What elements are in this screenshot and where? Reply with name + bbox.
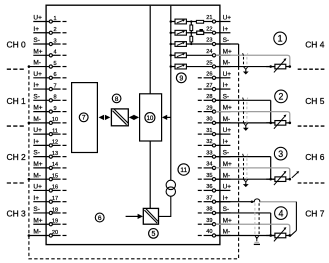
terminal circle 18 bbox=[49, 211, 52, 214]
internal bus wire lower bbox=[159, 196, 171, 216]
terminal circle 20 bbox=[49, 234, 52, 237]
svg-text:M+: M+ bbox=[223, 105, 232, 112]
svg-text:U+: U+ bbox=[223, 71, 232, 78]
terminal circle 25 bbox=[212, 65, 215, 68]
svg-text:CH 3: CH 3 bbox=[7, 209, 27, 219]
arrow bus to U10 bbox=[166, 116, 171, 118]
CH4 S- to M- link bbox=[216, 43, 239, 45]
svg-text:10: 10 bbox=[146, 115, 153, 122]
bidirectional arrow 8-10 bbox=[129, 115, 134, 120]
terminal circle 1 bbox=[49, 20, 52, 23]
CH4 M- wire bbox=[216, 66, 275, 68]
channel separator dashed right bbox=[298, 68, 325, 70]
wire U10 to U5 bbox=[149, 141, 151, 208]
wire top edge to U10 bbox=[149, 6, 151, 94]
svg-text:7: 7 bbox=[53, 83, 56, 89]
label circle 6 bbox=[95, 213, 104, 222]
svg-text:M+: M+ bbox=[33, 217, 42, 224]
input resistor row 24 bbox=[171, 54, 175, 56]
svg-text:S-: S- bbox=[223, 150, 230, 157]
terminal circle 2 bbox=[49, 31, 52, 34]
terminal circle 16 bbox=[49, 189, 52, 192]
CH5 M- wire bbox=[216, 122, 275, 124]
CH7 M- wire bbox=[216, 234, 275, 236]
multiplexer block U7 bbox=[72, 83, 98, 153]
input resistor row 22 bbox=[171, 32, 175, 34]
internal bus wire upper bbox=[170, 6, 172, 181]
legend circle 1 bbox=[274, 32, 287, 45]
svg-text:M-: M- bbox=[223, 116, 231, 123]
svg-text:I+: I+ bbox=[223, 138, 229, 145]
svg-text:CH 0: CH 0 bbox=[7, 40, 27, 50]
CH7 M+ wire gray bbox=[216, 224, 290, 235]
svg-text:4: 4 bbox=[278, 208, 283, 218]
row 21 series element bbox=[186, 21, 196, 23]
svg-text:36: 36 bbox=[206, 184, 212, 190]
row 23 wire bbox=[186, 43, 212, 45]
svg-text:33: 33 bbox=[206, 150, 212, 156]
svg-text:M+: M+ bbox=[33, 48, 42, 55]
svg-text:31: 31 bbox=[206, 128, 212, 134]
CH5 S- wire bbox=[216, 99, 271, 101]
svg-text:S-: S- bbox=[33, 37, 40, 44]
terminal circle 30 bbox=[212, 121, 215, 124]
svg-text:21: 21 bbox=[206, 15, 212, 21]
CH6 M- wire bbox=[216, 178, 275, 180]
label circle 5 bbox=[149, 229, 159, 239]
row 24 wire bbox=[186, 54, 212, 56]
CH6 sensor tap arrow bbox=[292, 172, 299, 178]
svg-text:28: 28 bbox=[206, 94, 212, 100]
svg-text:11: 11 bbox=[52, 128, 58, 134]
svg-text:U+: U+ bbox=[33, 127, 42, 134]
svg-text:S-: S- bbox=[33, 93, 40, 100]
CH7 I+ gray extension bbox=[260, 201, 296, 203]
svg-text:U+: U+ bbox=[33, 15, 42, 22]
svg-text:M+: M+ bbox=[223, 161, 232, 168]
svg-text:23: 23 bbox=[206, 38, 212, 44]
MANA analog-ground dashed loop bbox=[29, 67, 239, 259]
channel separator dashed left bbox=[7, 182, 24, 184]
svg-text:30: 30 bbox=[206, 117, 212, 123]
svg-text:M-: M- bbox=[223, 60, 231, 67]
svg-text:CH 1: CH 1 bbox=[7, 96, 27, 106]
bidirectional arrow 7-8 bbox=[99, 115, 104, 120]
svg-text:3: 3 bbox=[53, 38, 56, 44]
CH4 shield ground arrow bbox=[243, 67, 245, 70]
CH4 cable shield dashed bbox=[243, 57, 245, 67]
terminal circle 40 bbox=[212, 234, 215, 237]
isolation block U8 bbox=[111, 109, 128, 126]
CH5 sensor variable resistor bbox=[269, 122, 272, 125]
svg-text:I+: I+ bbox=[223, 195, 229, 202]
svg-text:M-: M- bbox=[33, 172, 41, 179]
svg-text:I+: I+ bbox=[223, 26, 229, 33]
junction dot MANA left row bbox=[28, 178, 31, 181]
label circle 9 bbox=[176, 73, 186, 83]
CH7 shield earth symbol bbox=[255, 235, 257, 238]
svg-text:37: 37 bbox=[206, 195, 212, 201]
terminal circle 39 bbox=[212, 223, 215, 226]
terminal circle 28 bbox=[212, 99, 215, 102]
arrow backplane to U5 bbox=[126, 215, 138, 217]
svg-text:8: 8 bbox=[115, 96, 119, 103]
CH6 sensor variable resistor bbox=[269, 178, 272, 181]
svg-text:1: 1 bbox=[53, 16, 56, 22]
terminal circle 14 bbox=[49, 166, 52, 169]
svg-text:4: 4 bbox=[53, 50, 56, 56]
terminal circle 36 bbox=[212, 189, 215, 192]
terminal circle 26 bbox=[212, 76, 215, 79]
legend circle 2 bbox=[275, 90, 288, 103]
terminal circle 5 bbox=[49, 65, 52, 68]
svg-text:I+: I+ bbox=[223, 82, 229, 89]
terminal circle 34 bbox=[212, 166, 215, 169]
CH7 S- wire bbox=[216, 212, 271, 214]
svg-text:U+: U+ bbox=[223, 184, 232, 191]
label circle 7 bbox=[79, 113, 88, 122]
svg-text:I+: I+ bbox=[33, 195, 39, 202]
svg-text:40: 40 bbox=[206, 229, 212, 235]
svg-text:I+: I+ bbox=[33, 138, 39, 145]
terminal circle 10 bbox=[49, 121, 52, 124]
CH5 shield ground arrow bbox=[243, 123, 245, 126]
svg-text:M-: M- bbox=[223, 172, 231, 179]
svg-text:2: 2 bbox=[53, 27, 56, 33]
svg-text:5: 5 bbox=[53, 61, 56, 67]
svg-text:27: 27 bbox=[206, 83, 212, 89]
terminal circle 31 bbox=[212, 133, 215, 136]
row 25 wire bbox=[186, 66, 212, 68]
label circle 11 bbox=[178, 164, 189, 175]
label circle 8 bbox=[112, 94, 121, 103]
svg-text:9: 9 bbox=[53, 106, 56, 112]
ADC block U10 bbox=[140, 94, 162, 141]
svg-text:U+: U+ bbox=[33, 71, 42, 78]
svg-text:22: 22 bbox=[206, 26, 212, 32]
channel separator dashed right bbox=[298, 182, 325, 184]
junction dot MANA left row bbox=[28, 65, 31, 68]
svg-text:M+: M+ bbox=[33, 161, 42, 168]
svg-text:M-: M- bbox=[33, 60, 41, 67]
terminal circle 33 bbox=[212, 155, 215, 158]
svg-text:CH 5: CH 5 bbox=[305, 96, 325, 106]
channel separator dashed left bbox=[7, 125, 24, 127]
terminal circle 7 bbox=[49, 87, 52, 90]
terminal circle 19 bbox=[49, 223, 52, 226]
module SM331 outline bbox=[46, 5, 220, 244]
input resistor row 23 bbox=[171, 43, 175, 45]
CH7 cable shield dashed bbox=[258, 203, 260, 235]
terminal circle 3 bbox=[49, 42, 52, 45]
junction dot MANA left row bbox=[28, 122, 31, 125]
svg-text:U+: U+ bbox=[223, 127, 232, 134]
svg-text:U+: U+ bbox=[223, 15, 232, 22]
svg-text:5: 5 bbox=[151, 231, 155, 238]
CH5 cable shield dashed bbox=[243, 102, 245, 123]
terminal circle 8 bbox=[49, 99, 52, 102]
svg-text:29: 29 bbox=[206, 105, 212, 111]
svg-text:S-: S- bbox=[33, 206, 40, 213]
legend circle 3 bbox=[274, 147, 287, 160]
svg-text:U+: U+ bbox=[33, 184, 42, 191]
divider resistor rows22-23 bbox=[190, 33, 192, 44]
terminal circle 15 bbox=[49, 178, 52, 181]
CH7 I+ wire with crossover hump bbox=[216, 201, 252, 203]
svg-text:S-: S- bbox=[223, 37, 230, 44]
CH6 M+ wire gray bbox=[216, 168, 290, 179]
terminal circle 24 bbox=[212, 54, 215, 57]
terminal circle 13 bbox=[49, 155, 52, 158]
terminal circle 4 bbox=[49, 54, 52, 57]
input resistor row 21 bbox=[171, 21, 175, 23]
CH7 sensor variable resistor bbox=[269, 234, 272, 237]
svg-text:M-: M- bbox=[223, 229, 231, 236]
svg-text:2: 2 bbox=[279, 92, 284, 102]
label circle 10 bbox=[145, 113, 155, 123]
terminal circle 29 bbox=[212, 110, 215, 113]
svg-text:M-: M- bbox=[33, 116, 41, 123]
svg-text:M+: M+ bbox=[223, 48, 232, 55]
terminal circle 9 bbox=[49, 110, 52, 113]
svg-text:CH 2: CH 2 bbox=[7, 152, 27, 162]
svg-text:CH 6: CH 6 bbox=[305, 152, 325, 162]
svg-text:I+: I+ bbox=[33, 26, 39, 33]
svg-text:35: 35 bbox=[206, 173, 212, 179]
channel separator dashed right bbox=[298, 125, 325, 127]
terminal circle 17 bbox=[49, 200, 52, 203]
divider resistor rows21-22 bbox=[190, 22, 192, 33]
svg-text:M+: M+ bbox=[223, 217, 232, 224]
svg-text:S-: S- bbox=[33, 150, 40, 157]
svg-text:CH 4: CH 4 bbox=[305, 40, 325, 50]
svg-text:26: 26 bbox=[206, 72, 212, 78]
svg-text:25: 25 bbox=[206, 60, 212, 66]
terminal circle 22 bbox=[212, 31, 215, 34]
CH6 S- wire bbox=[216, 156, 271, 158]
terminal circle 37 bbox=[212, 200, 215, 203]
channel separator dashed left bbox=[7, 68, 24, 70]
CH5 M+ wire gray bbox=[216, 112, 290, 123]
svg-text:39: 39 bbox=[206, 218, 212, 224]
svg-text:8: 8 bbox=[53, 95, 56, 101]
row 22 series element bbox=[186, 32, 196, 34]
input resistor row 25 bbox=[171, 66, 175, 68]
svg-text:6: 6 bbox=[53, 72, 56, 78]
svg-text:34: 34 bbox=[206, 162, 212, 168]
svg-text:6: 6 bbox=[98, 215, 102, 222]
svg-text:M+: M+ bbox=[33, 105, 42, 112]
CH6 shield ground arrow bbox=[243, 179, 245, 182]
terminal circle 38 bbox=[212, 211, 215, 214]
svg-text:I+: I+ bbox=[33, 82, 39, 89]
svg-text:S-: S- bbox=[223, 206, 230, 213]
svg-text:32: 32 bbox=[206, 139, 212, 145]
terminal circle 23 bbox=[212, 42, 215, 45]
current source symbol bbox=[166, 180, 175, 189]
svg-text:CH 7: CH 7 bbox=[305, 209, 325, 219]
svg-text:M-: M- bbox=[33, 229, 41, 236]
terminal circle 32 bbox=[212, 144, 215, 147]
svg-text:7: 7 bbox=[82, 115, 86, 122]
junction dot MANA left row bbox=[28, 234, 31, 237]
CH7 sensor feed wire bbox=[295, 202, 297, 231]
CH6 cable shield dashed bbox=[243, 158, 245, 179]
svg-text:3: 3 bbox=[278, 149, 283, 159]
svg-text:24: 24 bbox=[206, 49, 212, 55]
CH4 sensor variable resistor bbox=[269, 65, 272, 68]
svg-text:9: 9 bbox=[179, 75, 183, 82]
svg-text:S-: S- bbox=[223, 93, 230, 100]
svg-text:11: 11 bbox=[180, 167, 187, 174]
terminal circle 21 bbox=[212, 20, 215, 23]
svg-text:1: 1 bbox=[278, 34, 283, 44]
terminal circle 35 bbox=[212, 178, 215, 181]
terminal circle 11 bbox=[49, 133, 52, 136]
terminal circle 6 bbox=[49, 76, 52, 79]
legend circle 4 bbox=[275, 207, 288, 220]
bus interface block U5 bbox=[143, 208, 158, 224]
svg-text:38: 38 bbox=[206, 207, 212, 213]
CH4 M+ wire gray bbox=[216, 55, 290, 66]
terminal circle 27 bbox=[212, 87, 215, 90]
terminal circle 12 bbox=[49, 144, 52, 147]
